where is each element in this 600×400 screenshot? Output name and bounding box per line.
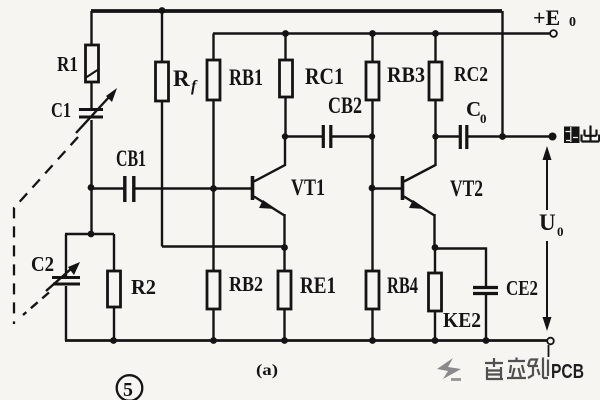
wire C2 bottom <box>65 286 67 341</box>
node C1/CB1 junction <box>88 184 95 191</box>
wire feedback rail drop to output node <box>501 11 503 136</box>
capacitor CB1 <box>125 176 134 202</box>
wire RC1 to collector node <box>284 97 286 136</box>
wire Rf top <box>161 11 163 62</box>
wire C0 to output <box>467 135 552 137</box>
label output terminal (drawn CJK) <box>564 126 599 144</box>
wire C1 to CB1 node <box>90 120 92 188</box>
svg-text:(a): (a) <box>256 362 278 379</box>
node emitter VT2 / RE2 / CE2 <box>432 244 439 251</box>
svg-text:RC1: RC1 <box>305 64 344 89</box>
wire R2 bottom <box>113 307 115 341</box>
wire base node to RB2 <box>212 188 214 271</box>
resistor RB1 <box>207 60 220 100</box>
svg-text:+E: +E <box>533 5 560 30</box>
node R2 at ground <box>110 337 117 344</box>
node feedback/output junction <box>499 133 506 140</box>
wire C0 left <box>436 135 460 137</box>
node RB3 at rail <box>369 30 376 37</box>
capacitor CB2 <box>323 125 331 148</box>
svg-text:R2: R2 <box>131 275 156 299</box>
svg-text:5: 5 <box>123 379 133 400</box>
wire ground terminal stub <box>548 345 550 357</box>
arrow of C1 <box>76 88 117 133</box>
node emitter VT1 / Rf / RE1 <box>281 244 288 251</box>
svg-text:RB4: RB4 <box>387 273 418 298</box>
wire R2 top <box>113 234 115 271</box>
wire CB1 to VT1 base <box>134 187 251 189</box>
resistor RC2 <box>429 62 442 100</box>
svg-text:RB3: RB3 <box>387 62 425 87</box>
resistor R1 <box>86 45 99 82</box>
svg-text:RE1: RE1 <box>300 273 336 298</box>
capacitor CE2 <box>473 288 498 294</box>
wire Rf to VT1 emitter <box>162 245 285 247</box>
capacitor C2 (variable) <box>52 278 80 285</box>
gang dashed tail of C2 arrow <box>23 293 49 316</box>
U0 arrow up <box>543 146 552 210</box>
svg-text:C2: C2 <box>31 252 54 276</box>
svg-text:C: C <box>466 97 481 121</box>
svg-text:VT1: VT1 <box>291 175 325 200</box>
wire R1 top <box>90 11 92 45</box>
wire C2 top <box>65 234 67 276</box>
wire top feedback rail <box>91 9 502 13</box>
node collector VT1 / CB2 left <box>282 133 288 139</box>
wire CB1 left <box>92 187 125 189</box>
node output terminal <box>549 133 557 141</box>
svg-text:CE2: CE2 <box>506 276 538 300</box>
node +E0 terminal <box>550 30 557 37</box>
wire CB2 left <box>285 135 322 137</box>
svg-text:U: U <box>539 210 556 235</box>
svg-text:0: 0 <box>569 15 576 30</box>
wire RC1 top <box>284 34 286 61</box>
resistor RC1 <box>280 60 293 97</box>
node RC2 at rail <box>432 30 439 37</box>
svg-text:PCB: PCB <box>551 361 584 383</box>
svg-text:R: R <box>173 66 190 91</box>
wire RC2 to collector node <box>434 100 436 136</box>
wire R1 to C1 <box>90 82 92 108</box>
gang dashed link C1 to C2 <box>14 137 78 324</box>
svg-text:VT2: VT2 <box>450 176 483 201</box>
stray mark inside R1 (print artifact) <box>86 70 98 78</box>
node RE2 at ground <box>432 337 439 344</box>
wire RB3 top <box>371 34 373 63</box>
wire bottom ground rail <box>65 339 550 342</box>
resistor RB3 <box>366 62 379 100</box>
node RC1 at rail <box>282 30 289 37</box>
wire RB4 bottom <box>371 309 373 341</box>
resistor RB2 <box>207 271 220 309</box>
wire CB2 right <box>331 135 372 137</box>
wire RB1 from rail <box>212 34 214 61</box>
resistor RB4 <box>366 271 379 309</box>
node RE1 at ground <box>281 337 288 344</box>
node ground terminal <box>547 338 554 345</box>
svg-text:0: 0 <box>557 224 564 239</box>
svg-text:CB1: CB1 <box>116 146 146 171</box>
wire RE2 top <box>434 248 436 273</box>
wire RB2 bottom <box>212 309 214 341</box>
svg-text:KE2: KE2 <box>443 308 481 332</box>
svg-text:CB2: CB2 <box>328 93 362 118</box>
node top of C2/R2 <box>88 231 95 238</box>
wire RE1 top <box>283 248 285 271</box>
node CB2 / VT2 base line <box>369 133 375 139</box>
node RB2 at ground <box>210 337 217 344</box>
wire RC2 top <box>434 34 436 63</box>
node collector VT2 / C0 <box>432 133 438 139</box>
resistor R2 <box>108 271 121 307</box>
svg-text:C1: C1 <box>51 98 71 122</box>
wire C2/R2 top bar <box>65 233 114 235</box>
wire RB1 to base node <box>212 100 214 188</box>
wire down to C2/R2 network <box>90 188 92 234</box>
wire RB3 to base node <box>371 100 373 188</box>
transistor VT2 <box>403 137 436 249</box>
svg-text:RC2: RC2 <box>454 62 488 86</box>
svg-text:RB1: RB1 <box>229 65 263 90</box>
wire +E0 power rail <box>213 32 550 34</box>
wire RE1 bottom <box>283 309 285 341</box>
transistor VT1 <box>253 137 286 249</box>
node base VT1 / RB divider <box>210 185 217 192</box>
svg-text:0: 0 <box>480 111 487 126</box>
node RB4 at ground <box>369 337 376 344</box>
resistor Rf <box>156 62 169 101</box>
resistor RE2 <box>429 273 442 311</box>
svg-text:RB2: RB2 <box>229 272 263 296</box>
arrow of C2 <box>46 262 80 291</box>
wire VT2 base <box>372 187 401 189</box>
watermark text (drawn CJK + PCB) <box>485 358 548 380</box>
capacitor C0 <box>460 125 467 149</box>
label figure number 5 <box>117 375 143 400</box>
wire emitter VT2 to CE2 <box>435 249 486 288</box>
svg-text:R1: R1 <box>57 52 78 76</box>
wire Rf bottom <box>161 101 163 247</box>
capacitor C1 (variable) <box>79 110 103 118</box>
node Rf top <box>159 7 166 14</box>
watermark logo <box>437 358 461 381</box>
resistor RE1 <box>278 271 291 309</box>
wire CE2 bottom <box>485 294 487 341</box>
node CE2 at ground <box>483 337 490 344</box>
U0 arrow down <box>543 241 552 331</box>
node base VT2 <box>369 185 376 192</box>
wire base node to RB4 <box>371 188 373 271</box>
wire RE2 bottom <box>434 311 436 341</box>
